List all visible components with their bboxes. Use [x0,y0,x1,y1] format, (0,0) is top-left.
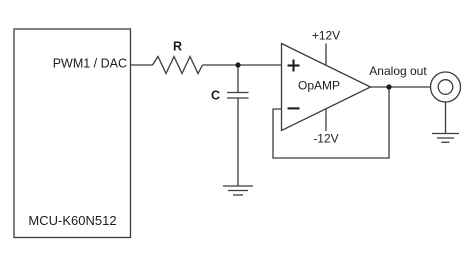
+12V supply wire [325,44,327,66]
-12V supply wire [325,109,327,131]
wire node to op-amp + input [238,64,282,66]
connector J1 outer circle [431,72,461,102]
svg-text:MCU-K60N512: MCU-K60N512 [28,213,116,228]
svg-text:OpAMP: OpAMP [298,79,340,93]
resistor R [153,57,203,74]
output wire apex to connector [371,86,431,88]
svg-text:+12V: +12V [312,29,340,43]
wire resistor to node [203,64,239,66]
svg-text:PWM1 / DAC: PWM1 / DAC [53,57,127,71]
capacitor C top lead [237,65,239,93]
node A junction dot [235,62,240,67]
capacitor C bottom lead [237,98,239,186]
wire connector to ground [445,102,447,134]
svg-text:Analog out: Analog out [369,64,427,78]
op-amp + input symbol [288,60,300,72]
op-amp - input symbol [288,107,300,109]
svg-text:-12V: -12V [313,132,338,146]
svg-text:C: C [211,89,220,103]
node B output junction dot [386,84,391,89]
capacitor C plates [227,92,249,94]
connector J1 inner circle [438,80,453,95]
ground (capacitor) [223,185,253,187]
feedback wire from - input to output node [273,87,389,158]
wire box to resistor [131,64,153,66]
ground (connector) [432,133,459,135]
MCU U1 box [14,29,131,238]
svg-text:R: R [173,40,182,54]
op-amp U2 triangle [282,44,371,131]
